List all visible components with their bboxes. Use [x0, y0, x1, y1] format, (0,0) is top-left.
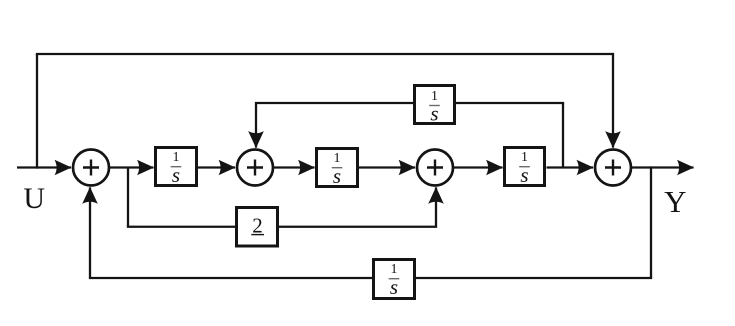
svg-text:s: s [390, 275, 398, 299]
svg-text:U: U [23, 182, 45, 215]
wire top feedforward horizontal [36, 53, 613, 55]
svg-text:Y: Y [664, 184, 686, 219]
label input U [23, 182, 45, 215]
wire top feedforward down into sum S4 [612, 53, 614, 148]
wire sum S4 to output Y [631, 166, 694, 168]
integrator block B3 value 1/s [505, 148, 545, 187]
svg-text:s: s [520, 163, 528, 187]
node takeoff on input line [36, 54, 38, 169]
wire takeoff to gain block 2 [127, 226, 235, 228]
wire sum S1 to block B1 [109, 166, 154, 168]
integrator block B5 bottom feedback value 1/s [374, 260, 415, 299]
wire sum S3 to block B3 [453, 166, 503, 168]
node takeoff after B3 [562, 103, 564, 168]
summing junction S4 [595, 150, 631, 186]
node takeoff on output line [650, 166, 652, 278]
wire gain block 2 to sum S3 bottom [279, 187, 436, 226]
wire block B5 to sum S1 bottom [90, 187, 372, 278]
wire takeoff up to block B4 input [456, 102, 564, 104]
integrator block B2 value 1/s [317, 149, 358, 188]
wire block B1 to sum S2 [198, 166, 235, 168]
wire sum S2 to block B2 [273, 166, 315, 168]
summing junction S2 [237, 150, 273, 186]
wire block B3 to sum S4 [547, 166, 594, 168]
wire block B4 output down into sum S2 top [256, 103, 413, 148]
integrator block B4 top feedback value 1/s [415, 86, 455, 126]
integrator block B1 value 1/s [156, 148, 197, 187]
gain block value 2 [237, 208, 278, 247]
wire block B2 to sum S3 [359, 166, 415, 168]
summing junction S1 [73, 150, 109, 186]
node takeoff after S1 [127, 168, 129, 227]
svg-text:s: s [172, 163, 180, 187]
svg-text:s: s [333, 164, 341, 188]
wire input U to sum S1 [17, 166, 71, 168]
label output Y [664, 184, 686, 219]
svg-text:s: s [430, 102, 438, 126]
summing junction S3 [417, 150, 453, 186]
svg-text:2: 2 [252, 214, 263, 238]
wire output down and left to block B5 [416, 277, 652, 279]
